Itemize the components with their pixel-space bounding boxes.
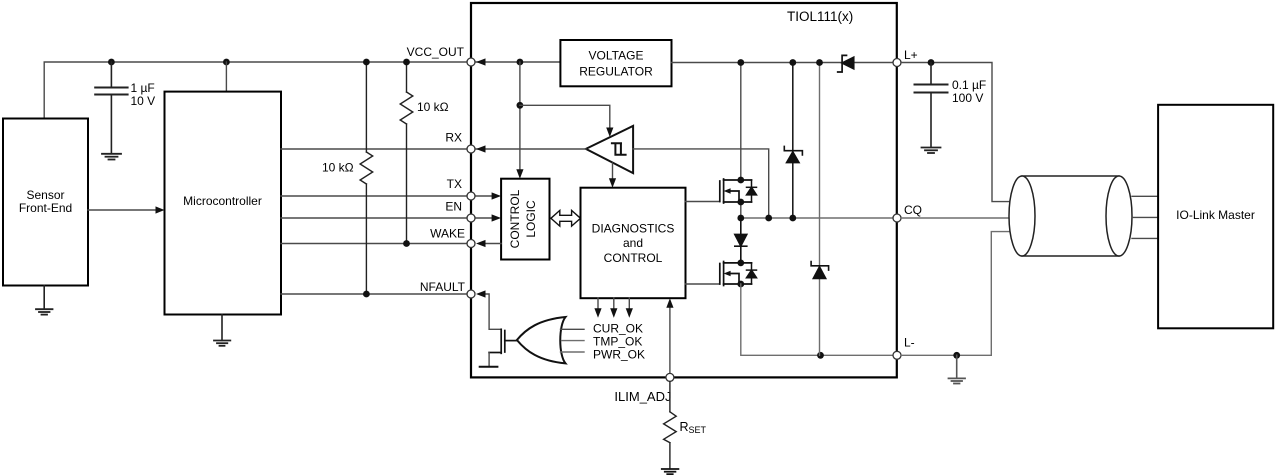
arrowhead RX out (476, 145, 486, 152)
wire VCC_OUT pin to voltage regulator (471, 61, 560, 63)
capacitor C1 1 uF (95, 62, 127, 154)
diagnostics and control box (581, 188, 686, 299)
pin circle L+ (893, 59, 901, 67)
svg-text:Microcontroller: Microcontroller (183, 194, 262, 208)
OR gate U2 (517, 317, 566, 363)
wire RX from microcontroller to pin (281, 148, 467, 150)
svg-text:CQ: CQ (904, 203, 922, 217)
transistor Q1 high-side (720, 179, 752, 203)
cable cylinder body (1009, 176, 1132, 256)
wire TX into control logic (471, 195, 494, 197)
wire receiver bottom to diagnostics (612, 163, 614, 183)
svg-text:VCC_OUT: VCC_OUT (407, 45, 465, 59)
svg-text:CONTROL: CONTROL (508, 189, 522, 248)
svg-text:Front-End: Front-End (19, 201, 72, 215)
wire Q1 source to CQ node (740, 202, 742, 218)
SECTION:LEFT (3, 45, 467, 346)
svg-text:CONTROL: CONTROL (604, 251, 663, 265)
wire WAKE from control logic (485, 243, 501, 245)
ground under microcontroller (214, 315, 230, 346)
SECTION:RIGHT (901, 48, 1273, 384)
svg-text:CUR_OK: CUR_OK (593, 322, 643, 336)
wire diag status CUR_OK arrow (597, 298, 599, 312)
resistor R 10k pull-up WAKE (400, 62, 413, 244)
wire diode to L+ pin (854, 62, 897, 64)
node L- ground junction (953, 352, 960, 359)
node L+ cap junction (928, 59, 935, 66)
capacitor C2 0.1 uF (915, 63, 948, 148)
cable right ellipse (1106, 176, 1132, 256)
body diode Q2 (747, 263, 757, 284)
pin circle EN (467, 214, 475, 222)
svg-text:10 V: 10 V (131, 94, 156, 108)
wire NFAULT pin to fault fet drain (485, 294, 501, 329)
body diode Q1 (747, 180, 757, 202)
arrowhead NFAULT out (476, 290, 486, 297)
svg-text:VOLTAGE: VOLTAGE (589, 49, 644, 63)
svg-text:L+: L+ (904, 48, 918, 62)
wire branch to receiver (520, 105, 610, 129)
svg-text:TX: TX (447, 177, 462, 191)
svg-text:WAKE: WAKE (430, 227, 465, 241)
svg-text:IO-Link Master: IO-Link Master (1176, 208, 1255, 222)
wire WAKE (281, 243, 467, 245)
wire micro top supply (225, 62, 227, 92)
arrowhead into control logic top (516, 169, 523, 179)
SECTION:TIOL (467, 3, 901, 474)
wire diag status PWR_OK arrow (628, 298, 630, 312)
svg-text:1 µF: 1 µF (131, 81, 155, 95)
wire receiver output to RX pin (471, 148, 586, 150)
wire L+ pin to cable (901, 63, 1009, 202)
ground under C2 (922, 148, 941, 154)
pin circle TX (467, 192, 475, 200)
wire diag gate stub high-side (686, 201, 720, 203)
pin circle CQ (893, 214, 901, 222)
IO-Link Master box (1158, 105, 1273, 328)
resistor RSET (664, 382, 677, 469)
wire OR input PWR_OK (561, 351, 585, 353)
svg-text:RX: RX (445, 131, 462, 145)
arrowhead into diagnostics top (609, 178, 616, 188)
svg-text:TMP_OK: TMP_OK (593, 335, 642, 349)
transistor Q3 fault open-drain (489, 329, 517, 353)
ground fault fet (480, 366, 498, 368)
svg-text:10 kΩ: 10 kΩ (322, 161, 354, 175)
wire CQ net (741, 217, 897, 219)
node supply branch (517, 102, 524, 109)
arrowhead TX into control logic (492, 192, 502, 199)
wire sensor to microcontroller (88, 209, 158, 211)
wire VCC rail (44, 62, 467, 119)
wire TX (281, 195, 467, 197)
wire diag gate stub low-side (686, 283, 720, 285)
control logic box (501, 179, 549, 260)
svg-text:10 kΩ: 10 kΩ (417, 100, 449, 114)
wire NFAULT (281, 293, 467, 295)
wire Q2 source to L- net (741, 284, 897, 355)
wire OR input CUR_OK (561, 328, 585, 330)
receiver comparator triangle (586, 126, 633, 173)
wire fault fet source to ground (488, 353, 490, 367)
svg-text:NFAULT: NFAULT (420, 280, 466, 294)
wire ILIM_ADJ pin up to diagnostics (669, 303, 671, 377)
wire cable to master L+ (1132, 195, 1158, 197)
pin circle VCC_OUT (467, 58, 475, 66)
svg-text:0.1 µF: 0.1 µF (952, 78, 986, 92)
zener Z1 clamp L+ to CQ (784, 63, 802, 219)
resistor R 10k pull-up NFAULT (360, 62, 373, 294)
arrowhead into microcontroller (156, 206, 165, 213)
svg-text:REGULATOR: REGULATOR (579, 65, 653, 79)
arrowhead VCC_OUT out (476, 58, 486, 65)
svg-text:L-: L- (904, 336, 915, 350)
ground at L- (949, 355, 966, 383)
svg-text:LOGIC: LOGIC (524, 200, 538, 238)
ground under C1 (102, 154, 121, 160)
Sensor Front-End box (3, 119, 88, 286)
zener Z2 clamp L+ to L- (819, 63, 821, 356)
arrowhead WAKE out (476, 240, 486, 247)
wire diag status TMP_OK arrow (613, 298, 615, 312)
wire receiver input from CQ (633, 149, 769, 218)
voltage regulator box U-REG (560, 40, 671, 86)
wire CQ pin to cable (901, 217, 1010, 219)
ground under sensor box (36, 286, 53, 315)
svg-text:ILIM_ADJ: ILIM_ADJ (614, 389, 671, 404)
svg-text:100 V: 100 V (952, 91, 983, 105)
wire internal supply drop (519, 62, 521, 172)
svg-text:DIAGNOSTICS: DIAGNOSTICS (592, 222, 675, 236)
wire EN (281, 217, 467, 219)
diode D2 CQ to low-side (735, 218, 747, 263)
pin circle ILIM_ADJ (666, 373, 674, 381)
svg-text:PWR_OK: PWR_OK (593, 348, 645, 362)
pin circle NFAULT (467, 290, 475, 298)
node VCC junction above microcontroller (223, 59, 230, 66)
arrowhead into receiver triangle (606, 128, 613, 138)
wire EN into control logic (471, 217, 494, 219)
diode D1 reverse protection (838, 55, 854, 72)
TIOL111 box (471, 3, 897, 377)
arrowhead EN into control logic (492, 214, 502, 221)
pin circle RX (467, 145, 475, 153)
cable left ellipse (1009, 176, 1035, 256)
node VCC internal junction (517, 59, 524, 66)
double arrow control logic to diagnostics (551, 210, 581, 226)
wire cable to master CQ (1132, 216, 1158, 218)
wire cable to master L- (1132, 237, 1158, 239)
Microcontroller box (165, 92, 282, 315)
wire L+ rail to Q1 drain (740, 63, 742, 181)
arrowhead into diagnostics bottom (666, 298, 673, 308)
pin circle L- (893, 351, 901, 359)
wire OR input TMP_OK (562, 340, 585, 342)
svg-text:TIOL111(x): TIOL111(x) (787, 9, 853, 24)
svg-text:EN: EN (445, 200, 462, 214)
wire L- pin to cable (901, 232, 1009, 356)
svg-text:and: and (623, 236, 643, 250)
node VCC junction at C1 (108, 59, 115, 66)
ground RSET (662, 469, 679, 474)
svg-text:Sensor: Sensor (26, 188, 64, 202)
hysteresis symbol (612, 143, 626, 154)
pin circle WAKE (467, 240, 475, 248)
transistor Q2 low-side (720, 262, 752, 286)
wire regulator to L+ rail (672, 62, 843, 64)
